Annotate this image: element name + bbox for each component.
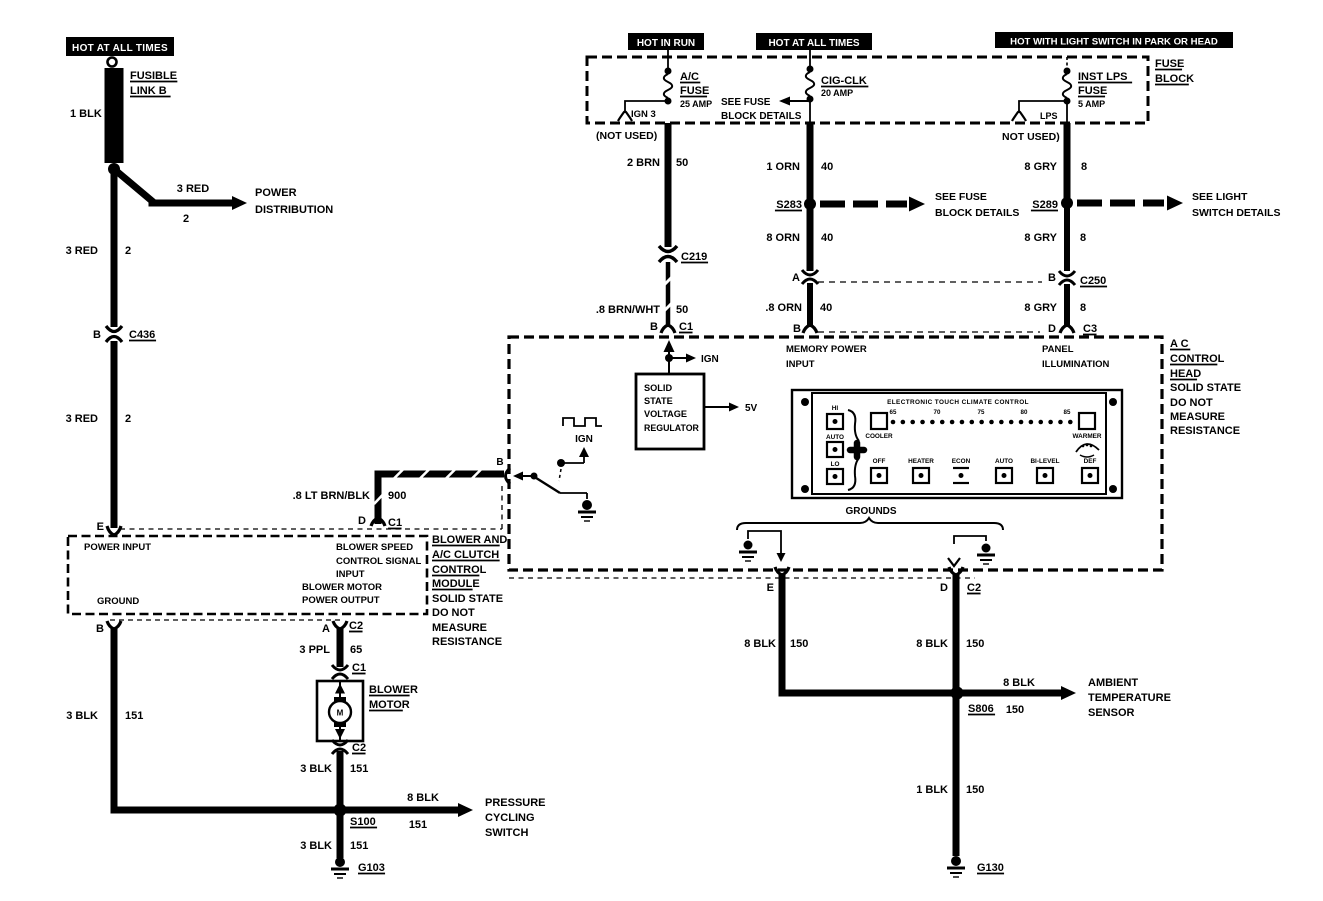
wire 8 BLK to ambient sensor: [961, 686, 1076, 700]
button AUTO (fan): [826, 434, 844, 457]
ground G130: [947, 856, 965, 877]
svg-text:C2: C2: [349, 620, 363, 632]
svg-text:POWER OUTPUT: POWER OUTPUT: [302, 595, 380, 606]
label C2 (module): [349, 620, 363, 632]
value label 8 BLK (E): [744, 638, 776, 650]
wire 8 BLK (E leg): [782, 575, 954, 693]
wire 3 PPL: [337, 629, 344, 667]
svg-text:8 GRY: 8 GRY: [1024, 161, 1057, 173]
svg-text:FUSE: FUSE: [1155, 58, 1184, 70]
svg-text:1 BLK: 1 BLK: [916, 784, 948, 796]
svg-text:S100: S100: [350, 816, 376, 828]
module name label: [432, 534, 507, 648]
svg-text:LINK B: LINK B: [130, 85, 167, 97]
svg-text:BI-LEVEL: BI-LEVEL: [1030, 458, 1059, 465]
wire 8 BLK to pressure switch: [344, 803, 473, 817]
svg-text:WARMER: WARMER: [1072, 433, 1101, 440]
button ECON: [952, 458, 971, 483]
grounds brace: [737, 518, 1003, 530]
svg-text:G130: G130: [977, 862, 1004, 874]
fusible link B terminal ring: [108, 58, 117, 67]
wire 3 BLK motor to S100: [337, 751, 344, 806]
pin D (head C2): [940, 582, 948, 594]
junction dot below fusible link: [108, 163, 120, 175]
button WARMER: [1072, 413, 1101, 440]
label BLOWER MOTOR: [369, 684, 418, 711]
svg-text:D: D: [1048, 323, 1056, 335]
pin label PANEL ILLUMINATION: [1042, 344, 1110, 370]
power label HOT AT ALL TIMES (left): [66, 37, 174, 56]
svg-text:B: B: [93, 329, 101, 341]
value label 8 (2): [1080, 232, 1086, 244]
svg-text:G103: G103: [358, 862, 385, 874]
svg-text:65: 65: [890, 409, 897, 416]
value label 150 (sensor): [1006, 704, 1024, 716]
svg-text:3 RED: 3 RED: [66, 245, 98, 257]
temperature scale numbers: [890, 409, 1071, 416]
pin label MEMORY POWER INPUT: [786, 344, 867, 370]
ground G103: [331, 857, 349, 878]
label C3: [1083, 323, 1097, 335]
svg-text:MEMORY POWER: MEMORY POWER: [786, 344, 867, 355]
svg-text:.8 LT BRN/BLK: .8 LT BRN/BLK: [293, 490, 370, 502]
svg-text:HOT WITH LIGHT SWITCH IN PARK: HOT WITH LIGHT SWITCH IN PARK OR HEAD: [1010, 37, 1218, 48]
label C219: [681, 251, 708, 263]
value label 2 (branch): [183, 213, 189, 225]
value label 150 (E): [790, 638, 808, 650]
svg-text:HOT AT ALL TIMES: HOT AT ALL TIMES: [768, 38, 859, 49]
svg-text:8 BLK: 8 BLK: [1003, 677, 1035, 689]
pin E (head): [767, 582, 774, 594]
svg-text:S806: S806: [968, 703, 994, 715]
blower/AC-clutch control module box: [68, 536, 427, 614]
pin D (module C1): [358, 515, 366, 527]
svg-text:BLOWER AND: BLOWER AND: [432, 534, 507, 546]
pin D (C3): [1048, 323, 1056, 335]
ground (switch): [578, 500, 596, 521]
label CIG-CLK 20 AMP: [821, 75, 868, 98]
svg-text:REGULATOR: REGULATOR: [644, 423, 700, 433]
note SEE LIGHT SWITCH DETAILS: [1192, 191, 1280, 219]
label NOT USED) right: [1002, 131, 1060, 143]
connector face line head bottom: [509, 577, 975, 579]
switch mechanical link: [559, 469, 561, 481]
svg-text:HOT IN RUN: HOT IN RUN: [637, 38, 695, 49]
switch common to ground: [560, 493, 587, 499]
value label 3 RED (branch): [177, 183, 209, 195]
svg-text:150: 150: [1006, 704, 1024, 716]
defrost icon: [1076, 444, 1099, 457]
svg-text:B: B: [1048, 272, 1056, 284]
svg-text:BLOWER: BLOWER: [369, 684, 418, 696]
signal label IGN (tap): [701, 354, 719, 365]
connector C1 (blower motor): [332, 665, 348, 679]
connector terminal D head: [1060, 325, 1074, 333]
label GROUNDS: [845, 506, 896, 517]
svg-text:ILLUMINATION: ILLUMINATION: [1042, 359, 1110, 370]
wire .8 LT BRN/BLK (hatched): [374, 470, 504, 525]
blower motor box: [317, 681, 363, 741]
A/C control head dashed box: [509, 337, 1162, 570]
pin B (C1 head): [650, 321, 658, 333]
note SEE FUSE BLOCK DETAILS (cig): [721, 97, 802, 122]
svg-text:LPS: LPS: [1040, 111, 1058, 121]
value label 151 (motor): [350, 763, 368, 775]
button OFF: [871, 458, 887, 483]
svg-text:8 GRY: 8 GRY: [1024, 302, 1057, 314]
svg-text:SWITCH: SWITCH: [485, 827, 528, 839]
svg-text:CYCLING: CYCLING: [485, 812, 535, 824]
clock waveform symbol: [563, 418, 602, 426]
wire 1 ORN: [807, 123, 814, 199]
svg-text:BLOWER MOTOR: BLOWER MOTOR: [302, 582, 382, 593]
svg-text:C1: C1: [679, 321, 693, 333]
svg-text:C436: C436: [129, 329, 155, 341]
value label 8: [1081, 161, 1087, 173]
svg-text:C3: C3: [1083, 323, 1097, 335]
svg-text:E: E: [767, 582, 774, 594]
svg-text:A/C CLUTCH: A/C CLUTCH: [432, 549, 499, 561]
value label 40 (2): [821, 232, 833, 244]
connector face line A to C250: [818, 281, 1042, 283]
svg-text:3 RED: 3 RED: [177, 183, 209, 195]
value label 50: [676, 157, 688, 169]
svg-text:DISTRIBUTION: DISTRIBUTION: [255, 204, 333, 216]
temperature dot row: [891, 420, 1073, 425]
pin label LPS: [1040, 111, 1058, 121]
svg-text:B: B: [650, 321, 658, 333]
value label 8 ORN: [766, 232, 800, 244]
svg-text:MEASURE: MEASURE: [432, 622, 487, 634]
connector terminal B left edge: [506, 468, 511, 484]
label SOLID STATE VOLTAGE REGULATOR: [644, 383, 700, 433]
svg-text:8: 8: [1080, 302, 1086, 314]
blower motor lead out: [335, 723, 345, 740]
svg-text:BLOCK: BLOCK: [1155, 73, 1194, 85]
button LO: [827, 461, 843, 484]
power label HOT AT ALL TIMES (center): [756, 33, 872, 50]
wire blade to B output: [513, 472, 533, 481]
svg-text:151: 151: [409, 819, 427, 831]
connector terminal B module: [107, 621, 121, 629]
svg-text:BLOWER SPEED: BLOWER SPEED: [336, 542, 413, 553]
wire 1 BLK to G130: [953, 693, 960, 856]
value label 8 BLK (D): [916, 638, 948, 650]
svg-text:65: 65: [350, 644, 362, 656]
connector C436: [106, 326, 122, 342]
svg-text:5V: 5V: [745, 403, 758, 414]
dashed arrow to fuse block details: [820, 197, 925, 212]
button BI-LEVEL: [1030, 458, 1059, 483]
svg-text:PANEL: PANEL: [1042, 344, 1074, 355]
value label 3 PPL: [299, 644, 330, 656]
pin A (connector): [792, 272, 800, 284]
svg-text:OFF: OFF: [873, 458, 886, 465]
svg-text:151: 151: [350, 840, 368, 852]
label S289: [1031, 199, 1058, 211]
connector terminal B C1 head: [661, 325, 675, 333]
svg-text:CONTROL: CONTROL: [1170, 353, 1225, 365]
svg-text:150: 150: [966, 784, 984, 796]
svg-text:2: 2: [183, 213, 189, 225]
svg-text:.8 ORN: .8 ORN: [765, 302, 802, 314]
fusible link B body: [105, 68, 124, 163]
wire IGN contact: [557, 459, 584, 467]
svg-text:900: 900: [388, 490, 406, 502]
svg-text:C1: C1: [388, 517, 402, 529]
dashed arrow to light switch details: [1077, 196, 1183, 211]
connector terminal D module: [371, 518, 385, 526]
svg-text:GROUND: GROUND: [97, 596, 139, 607]
value label 900: [388, 490, 406, 502]
value label 151: [125, 710, 143, 722]
wire 3 RED segment 1: [111, 169, 118, 327]
wire 3 RED segment 2: [111, 341, 118, 528]
signal label 5V: [745, 403, 758, 414]
value label 40 (3): [820, 302, 832, 314]
svg-text:3 BLK: 3 BLK: [300, 840, 332, 852]
label G103: [358, 862, 385, 874]
svg-text:50: 50: [676, 157, 688, 169]
wire 8 GRY segment 1: [1066, 102, 1068, 198]
label (NOT USED) left: [596, 130, 657, 142]
label G130: [977, 862, 1004, 874]
value label 2 (2): [125, 413, 131, 425]
svg-text:D: D: [358, 515, 366, 527]
pin B (C250): [1048, 272, 1056, 284]
wire CIG fuse to block edge: [809, 102, 811, 123]
svg-text:RESISTANCE: RESISTANCE: [432, 636, 502, 648]
pin label IGN 3: [631, 109, 656, 120]
connector terminal E on module: [107, 526, 121, 535]
node POWER DISTRIBUTION: [255, 187, 333, 216]
label C2 (head): [967, 582, 981, 594]
node PRESSURE CYCLING SWITCH: [485, 797, 546, 839]
svg-text:BLOCK DETAILS: BLOCK DETAILS: [721, 111, 802, 122]
svg-text:150: 150: [966, 638, 984, 650]
value label 3 RED (2): [66, 413, 98, 425]
svg-text:INPUT: INPUT: [786, 359, 815, 370]
svg-text:DO NOT: DO NOT: [1170, 397, 1213, 409]
label C250: [1080, 275, 1107, 287]
value label 8 BLK (pressure): [407, 792, 439, 804]
value label 151 (gnd): [350, 840, 368, 852]
value label 1 BLK: [916, 784, 948, 796]
button DEF: [1082, 458, 1098, 483]
wire 5V output: [704, 403, 739, 412]
value label 2 BRN: [627, 157, 660, 169]
svg-text:SWITCH DETAILS: SWITCH DETAILS: [1192, 207, 1280, 219]
svg-text:3 RED: 3 RED: [66, 413, 98, 425]
value label 3 RED: [66, 245, 98, 257]
svg-text:AUTO: AUTO: [995, 458, 1013, 465]
value label 8 GRY: [1024, 161, 1057, 173]
connector terminal A module: [333, 621, 347, 629]
pin B (memory power): [793, 323, 801, 335]
navigation cross: [850, 443, 864, 457]
button COOLER: [865, 413, 893, 440]
svg-text:A C: A C: [1170, 338, 1189, 350]
svg-text:85: 85: [1064, 409, 1071, 416]
note SEE FUSE BLOCK DETAILS (S283): [935, 191, 1019, 219]
wire .8 ORN: [807, 283, 813, 327]
svg-text:STATE: STATE: [644, 396, 673, 406]
pin B (module): [96, 623, 104, 635]
svg-text:50: 50: [676, 304, 688, 316]
terminal LPS (not used): [1012, 112, 1026, 122]
wire .8 BRN/WHT head drop: [665, 123, 672, 247]
svg-text:POWER: POWER: [255, 187, 297, 199]
label C436: [129, 329, 156, 341]
wire .8 BRN/WHT thin: [663, 262, 673, 327]
svg-text:5 AMP: 5 AMP: [1078, 99, 1105, 109]
button HEATER: [908, 458, 934, 483]
wire head ground to E: [748, 531, 786, 562]
svg-text:151: 151: [125, 710, 143, 722]
svg-text:8 ORN: 8 ORN: [766, 232, 800, 244]
value label 8 GRY (2): [1024, 232, 1057, 244]
connector face line C2 (module bottom): [110, 619, 344, 621]
wire 8 ORN: [807, 204, 814, 271]
svg-text:2 BRN: 2 BRN: [627, 157, 660, 169]
svg-text:NOT USED): NOT USED): [1002, 131, 1060, 143]
arrow to see-fuse note: [779, 97, 808, 106]
value label 3 BLK (motor): [300, 763, 332, 775]
wire C1 to regulator with IGN tap: [664, 340, 697, 374]
svg-text:25 AMP: 25 AMP: [680, 99, 712, 109]
pin label GROUND: [97, 596, 139, 607]
fan bracket: [848, 410, 859, 490]
svg-text:IGN: IGN: [575, 434, 593, 445]
switch SW1 blade: [531, 473, 561, 494]
fuse block dashed box: [587, 57, 1148, 123]
head name label: [1170, 338, 1241, 437]
pin B (C436): [93, 329, 101, 341]
svg-text:2: 2: [125, 413, 131, 425]
svg-text:C2: C2: [352, 742, 366, 754]
connector C219: [659, 246, 677, 262]
label C1 (head): [679, 321, 693, 333]
wire 3 BLK to G103: [337, 810, 344, 858]
value label 8 BLK (sensor): [1003, 677, 1035, 689]
blower motor lead in: [335, 681, 345, 701]
svg-text:IGN 3: IGN 3: [631, 109, 656, 120]
svg-text:S283: S283: [776, 199, 802, 211]
junction S100: [334, 804, 347, 817]
svg-text:D: D: [940, 582, 948, 594]
svg-text:TEMPERATURE: TEMPERATURE: [1088, 692, 1171, 704]
button AUTO (mode): [995, 458, 1013, 483]
svg-text:40: 40: [820, 302, 832, 314]
svg-text:3 PPL: 3 PPL: [299, 644, 330, 656]
svg-text:(NOT USED): (NOT USED): [596, 130, 657, 142]
value label 2: [125, 245, 131, 257]
svg-text:PRESSURE: PRESSURE: [485, 797, 546, 809]
svg-text:151: 151: [350, 763, 368, 775]
svg-text:SEE LIGHT: SEE LIGHT: [1192, 191, 1248, 203]
svg-text:GROUNDS: GROUNDS: [845, 506, 896, 517]
svg-text:FUSE: FUSE: [1078, 85, 1107, 97]
svg-text:DEF: DEF: [1084, 458, 1097, 465]
svg-text:8 BLK: 8 BLK: [407, 792, 439, 804]
A/C fuse F1: [664, 68, 672, 105]
svg-text:A/C: A/C: [680, 71, 699, 83]
svg-text:150: 150: [790, 638, 808, 650]
svg-text:40: 40: [821, 161, 833, 173]
signal label IGN (switch): [575, 434, 593, 445]
ground (head left): [739, 541, 757, 562]
connector A pair: [802, 270, 818, 284]
svg-text:M: M: [337, 709, 344, 718]
wire LPS tap: [1019, 101, 1067, 113]
value label 65: [350, 644, 362, 656]
value label 3 BLK: [66, 710, 98, 722]
svg-text:MOTOR: MOTOR: [369, 699, 410, 711]
label FUSIBLE LINK B: [130, 70, 177, 97]
svg-text:70: 70: [934, 409, 941, 416]
label FUSE BLOCK: [1155, 58, 1194, 85]
svg-text:CONTROL: CONTROL: [432, 564, 487, 576]
svg-text:C250: C250: [1080, 275, 1106, 287]
node AMBIENT TEMPERATURE SENSOR: [1088, 677, 1171, 719]
svg-text:E: E: [97, 521, 104, 533]
svg-text:1 BLK: 1 BLK: [70, 108, 102, 120]
svg-text:SOLID STATE: SOLID STATE: [432, 593, 503, 605]
connector C2 (motor bottom): [332, 740, 348, 754]
svg-text:DO NOT: DO NOT: [432, 607, 475, 619]
svg-text:HI: HI: [832, 405, 839, 412]
pin label BLOWER SPEED CONTROL SIGNAL INPUT: [336, 542, 422, 580]
svg-text:.8 BRN/WHT: .8 BRN/WHT: [596, 304, 660, 316]
wire IGN 3 tap: [625, 101, 668, 113]
svg-text:8 BLK: 8 BLK: [916, 638, 948, 650]
ground (head right): [977, 544, 995, 565]
wire head ground to D: [948, 536, 986, 566]
svg-text:SENSOR: SENSOR: [1088, 707, 1135, 719]
pin label BLOWER MOTOR POWER OUTPUT: [302, 582, 382, 606]
power label HOT IN RUN: [628, 33, 704, 50]
value label 1 BLK: [70, 108, 102, 120]
svg-text:LO: LO: [831, 461, 840, 468]
svg-text:3 BLK: 3 BLK: [300, 763, 332, 775]
svg-text:A: A: [322, 623, 330, 635]
pin E (blower module): [97, 521, 104, 533]
label C1 (module): [388, 517, 402, 529]
svg-text:A: A: [792, 272, 800, 284]
pin B (blower control out): [496, 457, 503, 468]
wire 8 GRY segment 3: [1064, 284, 1070, 327]
svg-text:POWER INPUT: POWER INPUT: [84, 542, 151, 553]
svg-text:IGN: IGN: [701, 354, 719, 365]
svg-text:HOT AT ALL TIMES: HOT AT ALL TIMES: [72, 43, 168, 54]
svg-text:C219: C219: [681, 251, 707, 263]
svg-text:3 BLK: 3 BLK: [66, 710, 98, 722]
IGN arrow terminal: [579, 447, 589, 463]
motor M1 symbol: [329, 697, 351, 727]
splice S283: [804, 198, 816, 210]
svg-text:MEASURE: MEASURE: [1170, 411, 1225, 423]
svg-text:ECON: ECON: [952, 458, 971, 465]
label S806: [968, 703, 995, 715]
label S283: [775, 199, 802, 211]
label C2 (motor): [352, 742, 366, 754]
svg-text:AMBIENT: AMBIENT: [1088, 677, 1138, 689]
value label 1 ORN: [766, 161, 800, 173]
svg-text:75: 75: [978, 409, 985, 416]
svg-text:HEAD: HEAD: [1170, 368, 1201, 380]
svg-text:1 ORN: 1 ORN: [766, 161, 800, 173]
panel screws: [801, 398, 1117, 493]
